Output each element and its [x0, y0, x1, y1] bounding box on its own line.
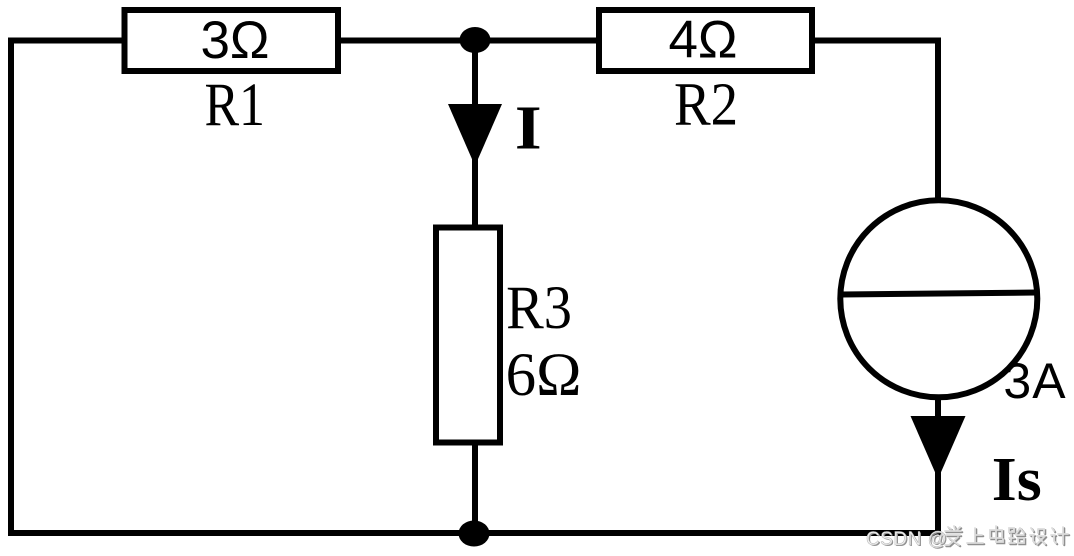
svg-text:6Ω: 6Ω — [506, 342, 582, 409]
svg-text:Is: Is — [992, 445, 1042, 514]
svg-text:R2: R2 — [674, 70, 738, 138]
arrow Is — [911, 416, 966, 479]
node B bottom junction — [459, 521, 490, 547]
wire R2 to top-right corner down to current source — [815, 41, 938, 198]
resistor R3 body — [436, 228, 500, 443]
svg-text:4Ω: 4Ω — [668, 11, 737, 70]
watermark CSDN text — [866, 529, 949, 551]
wire node to R2 — [475, 38, 596, 44]
wire R1 to node — [341, 38, 475, 44]
svg-text:R3: R3 — [506, 274, 572, 341]
watermark chinese characters — [945, 526, 1069, 546]
resistor R2 body — [599, 10, 812, 71]
resistor R1 body — [125, 10, 339, 71]
wire top-left horizontal — [11, 41, 941, 534]
svg-text:3A: 3A — [1003, 353, 1066, 409]
current source Is circle — [840, 200, 1037, 397]
wire current source to bottom wire — [935, 400, 941, 533]
svg-text:R1: R1 — [204, 72, 265, 139]
current arrow I — [448, 104, 502, 166]
current source bar — [841, 293, 1036, 295]
svg-text:I: I — [515, 95, 542, 163]
wire middle branch vertical — [472, 40, 478, 227]
wire R3 to bottom node — [472, 445, 478, 533]
svg-text:3Ω: 3Ω — [200, 11, 269, 70]
svg-text:CSDN @: CSDN @ — [866, 529, 947, 550]
node A top junction — [460, 27, 491, 53]
